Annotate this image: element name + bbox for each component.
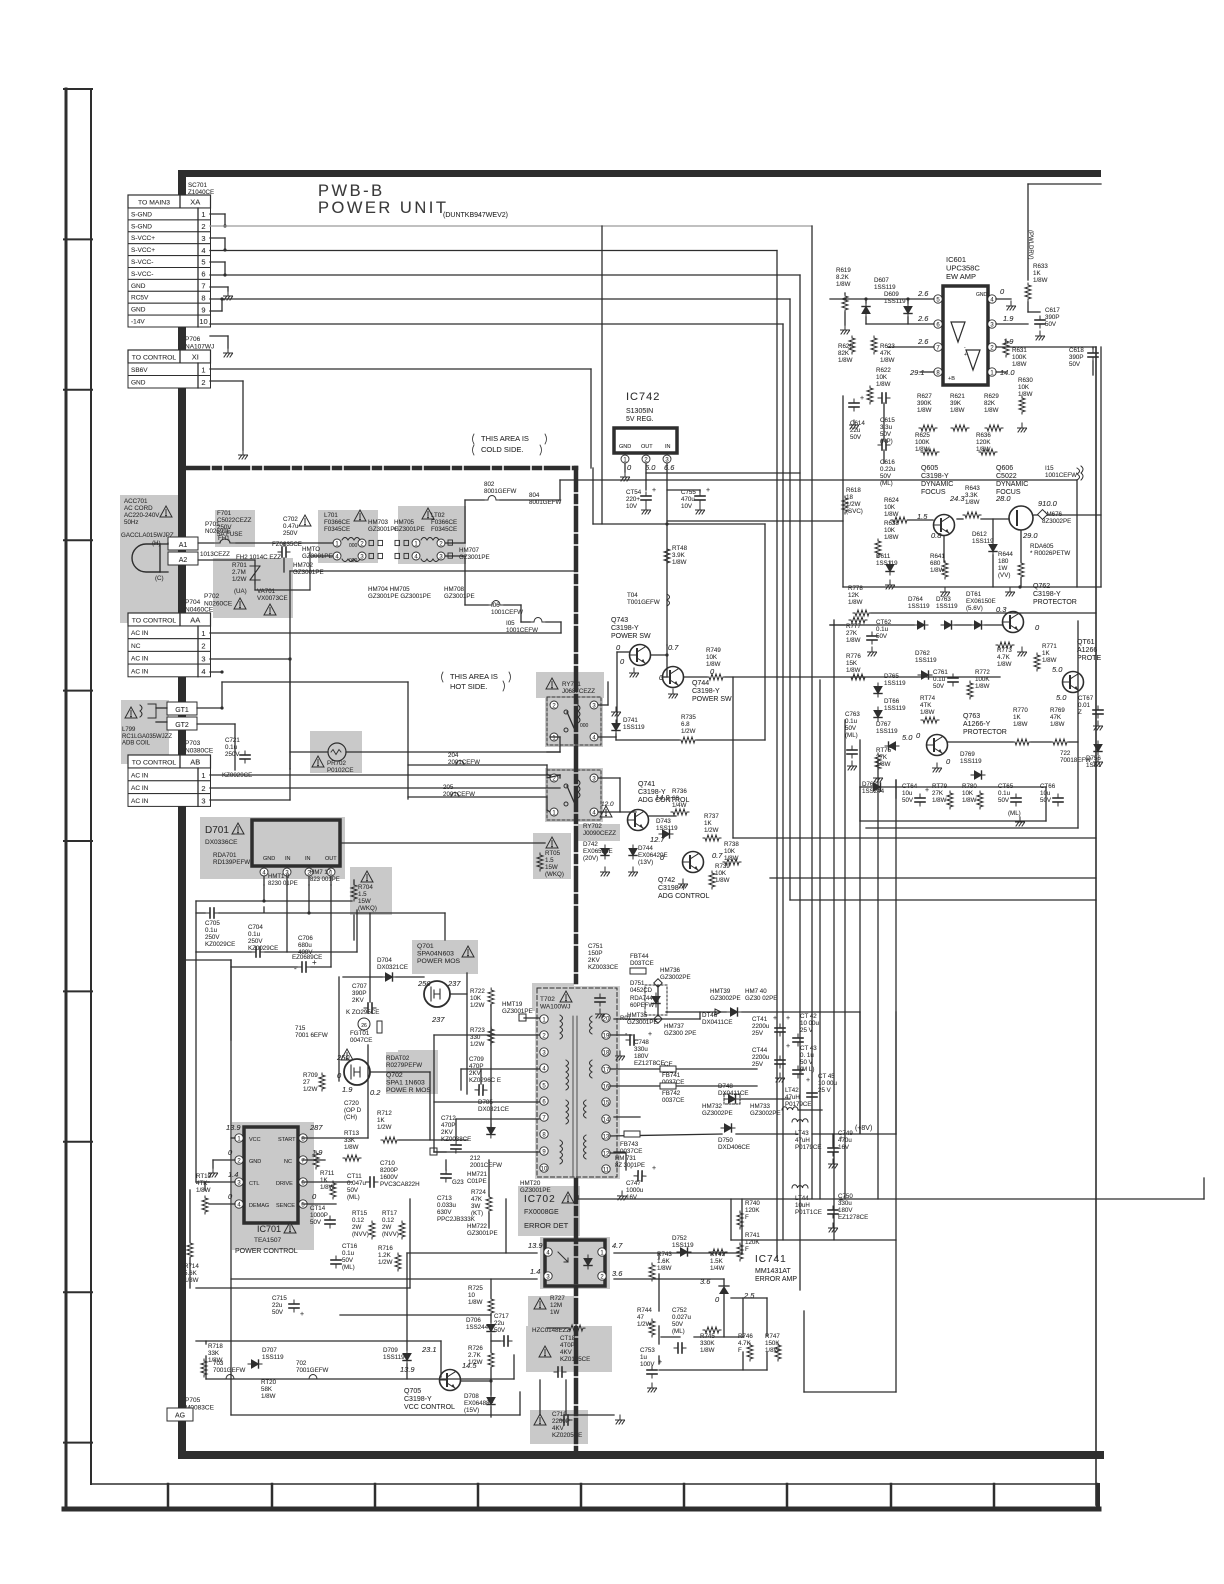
svg-text:Q701: Q701	[417, 943, 434, 950]
svg-text:RT13: RT13	[344, 1130, 360, 1137]
svg-text:1/8W: 1/8W	[984, 407, 999, 414]
svg-text:15W: 15W	[358, 898, 371, 905]
svg-text:PVC3CA822H: PVC3CA822H	[380, 1181, 420, 1188]
svg-text:FX0008GE: FX0008GE	[524, 1209, 559, 1216]
svg-text:R709: R709	[303, 1072, 318, 1079]
svg-text:RD139PEFW: RD139PEFW	[213, 859, 250, 866]
svg-text:ADB COIL: ADB COIL	[122, 741, 151, 747]
svg-text:(KT): (KT)	[471, 1210, 483, 1217]
svg-text:50V: 50V	[310, 1219, 322, 1226]
svg-text:6.6: 6.6	[664, 463, 675, 472]
svg-text:10V: 10V	[626, 503, 638, 510]
svg-text:RDA744: RDA744	[630, 996, 653, 1002]
svg-text:C747: C747	[626, 1180, 641, 1187]
svg-text:47: 47	[637, 1314, 644, 1321]
svg-text:POWE R MOS: POWE R MOS	[386, 1087, 431, 1094]
svg-text:RC5V: RC5V	[131, 295, 149, 302]
svg-text:1.2K: 1.2K	[378, 1252, 392, 1259]
svg-text:D764: D764	[908, 596, 923, 603]
svg-text:1/2W: 1/2W	[468, 1359, 483, 1366]
svg-text:0. 1u: 0. 1u	[800, 1052, 814, 1059]
svg-text:1.9: 1.9	[342, 1085, 353, 1094]
svg-text:47uH: 47uH	[795, 1137, 810, 1144]
svg-text:715: 715	[295, 1025, 306, 1032]
svg-text:50 V: 50 V	[800, 1059, 814, 1066]
svg-text:10K: 10K	[1018, 384, 1030, 391]
svg-text:1/8W: 1/8W	[846, 667, 861, 674]
svg-text:29.0: 29.0	[1022, 531, 1038, 540]
svg-text:C01PE: C01PE	[467, 1178, 487, 1185]
svg-text:5.0: 5.0	[1052, 665, 1063, 674]
svg-text:+: +	[652, 487, 656, 494]
svg-text:1SS119: 1SS119	[884, 680, 906, 687]
svg-text:C702: C702	[283, 516, 298, 523]
svg-text:C5022: C5022	[996, 473, 1017, 480]
svg-text:IC701: IC701	[257, 1224, 281, 1234]
svg-text:1.4: 1.4	[530, 1267, 540, 1276]
svg-text:R629: R629	[984, 393, 999, 400]
svg-text:(OP D: (OP D	[344, 1107, 362, 1114]
svg-text:D751: D751	[630, 981, 645, 987]
svg-text:HMT20: HMT20	[520, 1180, 541, 1187]
svg-text:1/8W: 1/8W	[950, 407, 965, 414]
svg-text:000: 000	[349, 543, 358, 549]
svg-text:10K: 10K	[884, 504, 896, 511]
svg-text:27: 27	[303, 1079, 310, 1086]
svg-text:HM7 40: HM7 40	[745, 988, 767, 995]
svg-text:HMT39: HMT39	[710, 988, 731, 995]
svg-text:287: 287	[309, 1123, 323, 1132]
svg-text:(ML): (ML)	[347, 1194, 360, 1201]
svg-text:Q705: Q705	[404, 1388, 421, 1395]
svg-text:Q743: Q743	[611, 617, 628, 624]
svg-text:GZ3001PE: GZ3001PE	[520, 1187, 551, 1194]
svg-text:CT16: CT16	[342, 1243, 358, 1250]
svg-text:212: 212	[470, 1155, 481, 1162]
svg-text:(ML): (ML)	[342, 1264, 355, 1271]
svg-text:000: 000	[580, 723, 589, 729]
svg-text:THIS AREA IS: THIS AREA IS	[481, 434, 529, 443]
svg-text:L799: L799	[122, 727, 136, 733]
svg-text:R727: R727	[550, 1295, 565, 1302]
svg-text:KZ0296C E: KZ0296C E	[469, 1077, 501, 1084]
svg-text:QT61: QT61	[1077, 639, 1095, 646]
svg-text:+: +	[312, 958, 317, 967]
svg-text:1/8W: 1/8W	[1018, 391, 1033, 398]
svg-text:330: 330	[470, 1034, 481, 1041]
svg-text:IN: IN	[285, 856, 291, 862]
svg-text:1/8W: 1/8W	[1012, 361, 1027, 368]
svg-text:F: F	[738, 1347, 742, 1354]
svg-text:GT2: GT2	[175, 722, 189, 729]
svg-text:58K: 58K	[261, 1386, 273, 1393]
svg-text:1/8W: 1/8W	[965, 499, 980, 506]
svg-text:FOCUS: FOCUS	[921, 489, 946, 496]
svg-text:R769: R769	[1050, 707, 1065, 714]
svg-text:RDA701: RDA701	[213, 852, 237, 859]
svg-text:13.9: 13.9	[226, 1123, 241, 1132]
svg-text:DX0321CE: DX0321CE	[377, 964, 408, 971]
svg-text:0.047u: 0.047u	[347, 1180, 366, 1187]
svg-text:14.9: 14.9	[655, 793, 670, 802]
svg-text:4KV: 4KV	[560, 1349, 573, 1356]
svg-text:CT54: CT54	[626, 489, 642, 496]
svg-text:C705: C705	[205, 920, 220, 927]
svg-text:AC IN: AC IN	[131, 656, 149, 663]
svg-text:C5022CEZZ: C5022CEZZ	[217, 517, 252, 524]
svg-text:1: 1	[201, 210, 205, 219]
svg-text:D705: D705	[478, 1099, 493, 1106]
svg-text:R770: R770	[1013, 707, 1028, 714]
svg-text:120K: 120K	[745, 1239, 760, 1246]
svg-text:R735: R735	[681, 714, 696, 721]
svg-text:R636: R636	[976, 432, 991, 439]
svg-text:CT 43: CT 43	[800, 1045, 817, 1052]
svg-text:AC IN: AC IN	[131, 668, 149, 675]
svg-text:1SS119: 1SS119	[874, 284, 896, 291]
svg-text:DT61: DT61	[966, 591, 982, 598]
svg-text:390P: 390P	[352, 990, 366, 997]
svg-text:17: 17	[603, 1067, 610, 1073]
svg-text:1W: 1W	[998, 565, 1007, 572]
svg-text:S-VCC-: S-VCC-	[131, 259, 153, 266]
svg-text:2W: 2W	[382, 1224, 391, 1231]
svg-text:C615: C615	[880, 417, 895, 424]
svg-text:4TK: 4TK	[196, 1180, 208, 1187]
svg-text:AC CORD: AC CORD	[124, 505, 153, 512]
svg-text:4: 4	[201, 246, 205, 255]
svg-text:19: 19	[603, 1033, 610, 1039]
svg-text:7001 6EFW: 7001 6EFW	[295, 1032, 328, 1039]
svg-text:1.5: 1.5	[545, 857, 554, 864]
svg-text:2.6: 2.6	[917, 337, 929, 346]
svg-text:A1266: A1266	[1077, 647, 1097, 654]
svg-text:P702: P702	[204, 593, 220, 600]
svg-text:11: 11	[603, 1167, 610, 1173]
svg-text:5.0: 5.0	[902, 733, 913, 742]
svg-text:R740: R740	[745, 1200, 760, 1207]
svg-text:P704: P704	[185, 599, 201, 606]
svg-text:D706: D706	[466, 1317, 481, 1324]
svg-text:LT42: LT42	[785, 1087, 799, 1094]
svg-text:1/4W: 1/4W	[710, 1265, 725, 1272]
svg-text:HOT SIDE.: HOT SIDE.	[450, 682, 487, 691]
svg-text:C617: C617	[1045, 307, 1060, 314]
svg-text:1/2W: 1/2W	[681, 728, 696, 735]
svg-text:GND: GND	[976, 292, 988, 298]
svg-text:-14V: -14V	[131, 319, 145, 326]
svg-text:50V: 50V	[347, 1187, 359, 1194]
svg-text:RY701: RY701	[562, 681, 581, 688]
svg-text:AC IN: AC IN	[131, 785, 149, 792]
svg-text:68: 68	[672, 795, 679, 802]
svg-text:AG: AG	[175, 1413, 185, 1420]
svg-text:2KV: 2KV	[441, 1129, 454, 1136]
svg-text:1/2W: 1/2W	[704, 827, 719, 834]
svg-text:910.0: 910.0	[1038, 499, 1058, 508]
svg-text:5.0: 5.0	[645, 463, 656, 472]
svg-text:5: 5	[201, 258, 205, 267]
svg-text:180: 180	[998, 558, 1009, 565]
svg-text:2200u: 2200u	[752, 1023, 770, 1030]
svg-text:CT 42: CT 42	[800, 1013, 817, 1020]
svg-text:250: 250	[417, 979, 431, 988]
svg-text:50V: 50V	[933, 683, 945, 690]
svg-text:R739: R739	[715, 863, 730, 870]
svg-text:GND: GND	[263, 856, 275, 862]
svg-text:330K: 330K	[700, 1340, 715, 1347]
svg-text:50V: 50V	[880, 473, 892, 480]
svg-text:(ML): (ML)	[880, 480, 893, 487]
svg-text:C3198-Y: C3198-Y	[404, 1396, 432, 1403]
svg-text:2.6: 2.6	[917, 314, 929, 323]
svg-text:S-VCC+: S-VCC+	[131, 235, 155, 242]
svg-text:FB743: FB743	[620, 1141, 639, 1148]
svg-text:0.033u: 0.033u	[437, 1202, 456, 1209]
svg-text:6: 6	[201, 270, 205, 279]
svg-text:100V: 100V	[640, 1361, 655, 1368]
svg-text:1/8W: 1/8W	[876, 381, 891, 388]
svg-text:HM736: HM736	[660, 967, 681, 974]
svg-text:10K: 10K	[706, 654, 718, 661]
svg-text:P0179CE: P0179CE	[785, 1101, 812, 1108]
svg-text:18: 18	[846, 494, 853, 501]
svg-text:18: 18	[603, 1050, 610, 1056]
svg-text:R723: R723	[470, 1027, 485, 1034]
svg-text:GND: GND	[249, 1159, 261, 1165]
svg-text:50V: 50V	[845, 725, 857, 732]
svg-text:THIS AREA IS: THIS AREA IS	[450, 672, 498, 681]
svg-text:+: +	[786, 1043, 790, 1050]
svg-text:100K: 100K	[1012, 354, 1027, 361]
svg-text:+: +	[839, 1135, 843, 1142]
svg-text:13: 13	[603, 1134, 610, 1140]
svg-text:R624: R624	[884, 497, 899, 504]
svg-text:AC IN: AC IN	[131, 630, 149, 637]
svg-text:GZ3002PE: GZ3002PE	[750, 1110, 781, 1117]
svg-text:I06: I06	[491, 602, 500, 609]
svg-text:0.1u: 0.1u	[998, 790, 1011, 797]
svg-text:R622: R622	[876, 367, 891, 374]
svg-text:HM703: HM703	[368, 519, 389, 526]
svg-text:1013CEZZ: 1013CEZZ	[200, 551, 230, 558]
svg-text:20: 20	[603, 1016, 610, 1022]
svg-text:XA: XA	[190, 198, 200, 207]
svg-text:(PWLDRV): (PWLDRV)	[1027, 230, 1033, 260]
svg-text:10: 10	[541, 1166, 548, 1172]
svg-text:25V: 25V	[752, 1030, 764, 1037]
svg-text:RDA605: RDA605	[1030, 543, 1054, 550]
svg-text:R741: R741	[745, 1232, 760, 1239]
svg-text:47K: 47K	[880, 350, 892, 357]
svg-text:C710: C710	[380, 1160, 395, 1167]
svg-text:R738: R738	[724, 841, 739, 848]
svg-text:GZ3001PE: GZ3001PE	[394, 526, 425, 533]
svg-text:27K: 27K	[932, 790, 944, 797]
svg-text:50V: 50V	[272, 1309, 284, 1316]
svg-text:50V: 50V	[998, 797, 1010, 804]
svg-text:10 00u: 10 00u	[818, 1080, 837, 1087]
svg-text:470P: 470P	[469, 1063, 483, 1070]
svg-text:5A FUSE: 5A FUSE	[217, 531, 242, 538]
svg-text:2.7K: 2.7K	[468, 1352, 482, 1359]
svg-text:I15: I15	[1045, 465, 1054, 472]
svg-text:A2: A2	[179, 557, 188, 564]
svg-text:C761: C761	[933, 669, 948, 676]
svg-text:Q702: Q702	[386, 1072, 403, 1079]
svg-text:120K: 120K	[976, 439, 991, 446]
svg-text:P705: P705	[185, 1397, 201, 1404]
svg-text:0.7: 0.7	[668, 643, 679, 652]
svg-text:150P: 150P	[588, 950, 602, 957]
svg-text:1/8W: 1/8W	[715, 877, 730, 884]
svg-text:C616: C616	[880, 459, 895, 466]
svg-text:1000u: 1000u	[626, 1187, 644, 1194]
svg-text:0.2: 0.2	[370, 1088, 381, 1097]
svg-text:POWER CONTROL: POWER CONTROL	[235, 1248, 298, 1255]
svg-text:Z: Z	[1078, 709, 1082, 716]
svg-text:1/8W: 1/8W	[1033, 277, 1048, 284]
svg-text:10uH: 10uH	[795, 1202, 810, 1209]
svg-text:GZ3001PE: GZ3001PE	[467, 1230, 498, 1237]
svg-text:3W: 3W	[471, 1203, 480, 1210]
svg-text:GND: GND	[131, 380, 146, 387]
svg-text:1/8W: 1/8W	[1042, 657, 1057, 664]
svg-text:1/8W: 1/8W	[468, 1299, 483, 1306]
svg-text:C753: C753	[640, 1347, 655, 1354]
svg-text:2KV: 2KV	[469, 1070, 482, 1077]
svg-text:33K: 33K	[208, 1350, 220, 1357]
svg-text:3: 3	[201, 654, 205, 663]
svg-text:50Hz: 50Hz	[124, 519, 138, 526]
svg-text:Q744: Q744	[692, 680, 709, 687]
svg-text:HM7 17: HM7 17	[310, 870, 332, 876]
svg-text:DYNAMIC: DYNAMIC	[921, 481, 953, 488]
svg-text:D701: D701	[205, 825, 229, 836]
svg-text:T702: T702	[540, 996, 555, 1003]
svg-text:(UA): (UA)	[234, 588, 247, 595]
svg-text:Q763: Q763	[963, 713, 980, 720]
svg-text:1K: 1K	[320, 1177, 328, 1184]
svg-text:R737: R737	[704, 813, 719, 820]
svg-text:8001GEFW: 8001GEFW	[484, 488, 516, 495]
svg-text:RT10: RT10	[196, 1173, 212, 1180]
svg-text:6.8: 6.8	[681, 721, 690, 728]
svg-text:D741: D741	[623, 717, 638, 724]
svg-text:GT1: GT1	[175, 707, 189, 714]
svg-text:A1266-Y: A1266-Y	[963, 721, 991, 728]
svg-text:1/8W: 1/8W	[344, 1144, 359, 1151]
svg-text:CT18: CT18	[560, 1335, 576, 1342]
svg-text:1/8W: 1/8W	[184, 1277, 199, 1284]
svg-text:4.7: 4.7	[612, 1241, 623, 1250]
svg-text:0.12: 0.12	[352, 1217, 365, 1224]
svg-text:1/8W: 1/8W	[884, 534, 899, 541]
svg-text:0.1u: 0.1u	[248, 931, 261, 938]
svg-text:2001CEFW: 2001CEFW	[443, 791, 475, 798]
svg-text:1SS119: 1SS119	[383, 1354, 405, 1361]
svg-text:2: 2	[201, 378, 205, 387]
svg-text:S-VCC-: S-VCC-	[131, 271, 153, 278]
svg-text:23.1: 23.1	[421, 1345, 437, 1354]
svg-text:10: 10	[199, 317, 207, 326]
svg-text:GND: GND	[619, 444, 631, 450]
svg-text:(WKQ): (WKQ)	[358, 905, 377, 912]
svg-text:RT17: RT17	[382, 1210, 398, 1217]
svg-text:C719: C719	[552, 1411, 567, 1418]
svg-text:1W: 1W	[550, 1309, 559, 1316]
svg-text:Q762: Q762	[1033, 583, 1050, 590]
svg-text:RT48: RT48	[672, 545, 688, 552]
svg-text:CT44: CT44	[752, 1047, 768, 1054]
svg-text:K ZO295CE: K ZO295CE	[346, 1009, 379, 1016]
svg-text:OUT: OUT	[641, 444, 653, 450]
svg-text:220+: 220+	[626, 496, 640, 503]
svg-text:D743: D743	[656, 818, 671, 825]
svg-text:D756: D756	[1086, 755, 1101, 762]
svg-text:14: 14	[603, 1117, 610, 1123]
svg-text:1/8W: 1/8W	[962, 797, 977, 804]
svg-text:13.9: 13.9	[528, 1241, 543, 1250]
svg-text:50V: 50V	[902, 797, 914, 804]
svg-text:R641: R641	[930, 553, 945, 560]
svg-text:250V: 250V	[217, 524, 232, 531]
svg-text:R716: R716	[378, 1245, 393, 1252]
svg-text:(ML): (ML)	[672, 1328, 685, 1335]
svg-text:P01T1CE: P01T1CE	[795, 1209, 822, 1216]
svg-text:VCC CONTROL: VCC CONTROL	[404, 1404, 455, 1411]
svg-text:1/8W: 1/8W	[672, 559, 687, 566]
svg-text:GZ3001PE: GZ3001PE	[502, 1008, 533, 1015]
svg-text:GZ30 02PE: GZ30 02PE	[745, 995, 777, 1002]
svg-text:HMT19: HMT19	[502, 1001, 523, 1008]
svg-text:10u: 10u	[902, 790, 913, 797]
svg-text:1/2W: 1/2W	[378, 1259, 393, 1266]
svg-text:C712: C712	[441, 1115, 456, 1122]
svg-text:10K: 10K	[715, 870, 727, 877]
svg-text:KZ0033CE: KZ0033CE	[588, 964, 618, 971]
svg-text:2001CEFW: 2001CEFW	[448, 759, 480, 766]
svg-text:12M: 12M	[550, 1302, 562, 1309]
svg-text:C752: C752	[672, 1307, 687, 1314]
svg-text:DX0321CE: DX0321CE	[478, 1106, 509, 1113]
svg-text:100K: 100K	[975, 676, 990, 683]
svg-text:IN: IN	[305, 856, 311, 862]
svg-text:POWER SW: POWER SW	[692, 696, 732, 703]
svg-text:VA701: VA701	[257, 588, 276, 595]
svg-text:P706: P706	[185, 336, 201, 343]
svg-text:D708: D708	[464, 1393, 479, 1400]
svg-text:S1305IN: S1305IN	[626, 408, 653, 415]
svg-text:8Z3002PE: 8Z3002PE	[1042, 518, 1071, 525]
svg-text:0.1u: 0.1u	[876, 626, 889, 633]
svg-text:1/8W: 1/8W	[320, 1184, 335, 1191]
svg-text:3.3K: 3.3K	[965, 492, 979, 499]
svg-text:10 00u: 10 00u	[800, 1020, 819, 1027]
svg-text:I05: I05	[506, 620, 515, 627]
svg-text:P703: P703	[185, 740, 201, 747]
svg-text:R714: R714	[184, 1263, 199, 1270]
svg-text:CTL: CTL	[249, 1181, 259, 1187]
svg-text:R778: R778	[848, 585, 863, 592]
svg-text:1SS119: 1SS119	[262, 1354, 284, 1361]
svg-text:1/2W: 1/2W	[303, 1086, 318, 1093]
svg-text:C3198-Y: C3198-Y	[611, 625, 639, 632]
svg-text:+: +	[925, 787, 929, 794]
svg-text:4T0P: 4T0P	[560, 1342, 575, 1349]
svg-text:C618: C618	[1069, 347, 1084, 354]
svg-text:SC701: SC701	[188, 182, 207, 189]
